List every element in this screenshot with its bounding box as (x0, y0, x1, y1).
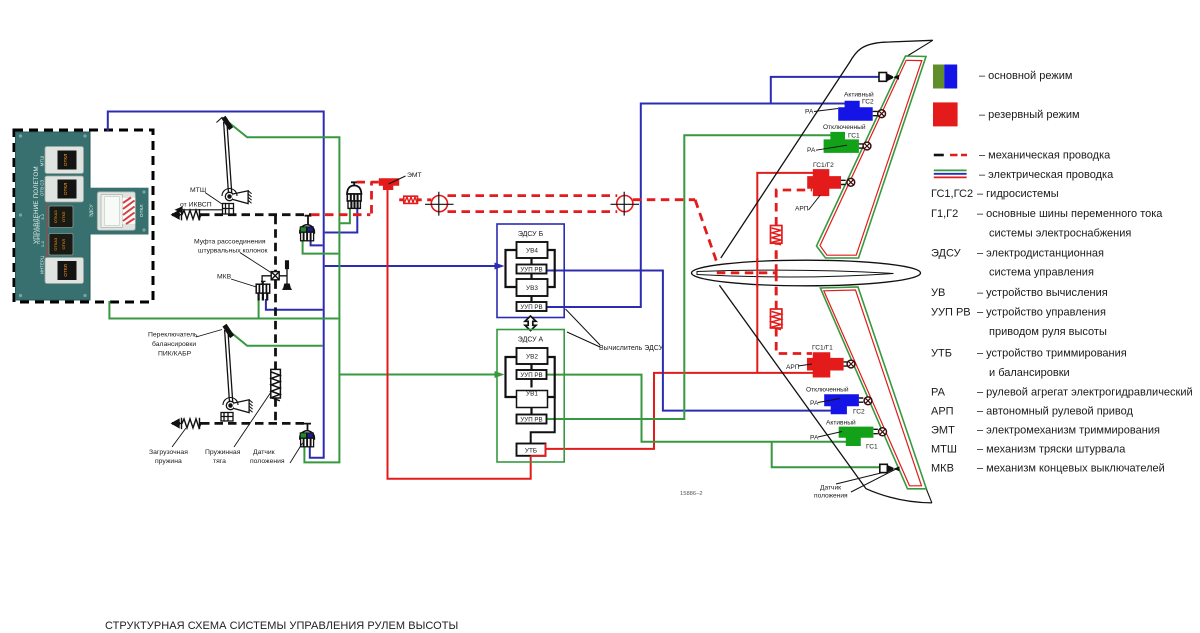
svg-text:системы электроснабжения: системы электроснабжения (989, 228, 1131, 240)
svg-text:– механическая проводка: – механическая проводка (979, 150, 1111, 162)
wire red EMT to UTB bottom (388, 190, 531, 479)
GROUP: overlay mech lines over fuselage (717, 252, 776, 296)
GROUP: wires (108, 77, 880, 479)
EMT trim electromechanism (379, 178, 399, 190)
svg-text:ЭДСУ А: ЭДСУ А (518, 337, 544, 344)
svg-text:положения: положения (814, 493, 848, 500)
clutch release lever (282, 261, 292, 289)
EDSU A outer box (497, 330, 564, 463)
loading spring copilot (172, 418, 203, 429)
mech black dashed vertical interconnect columns (274, 216, 277, 423)
cable quadrant pulley left (425, 192, 454, 216)
cable tension spring red (404, 196, 418, 203)
red wire crossing fuselage (756, 258, 758, 287)
svg-text:МКВ: МКВ (931, 463, 954, 475)
upper hinge circle red row (841, 178, 855, 186)
control column copilot (221, 324, 253, 421)
block UV3 (517, 279, 548, 296)
GROUP: edsu computers (495, 224, 664, 462)
svg-text:– резервный режим: – резервный режим (979, 109, 1080, 121)
wire green branch to lower position sensor (772, 442, 880, 467)
svg-text:УТБ: УТБ (525, 448, 537, 455)
svg-text:Активный: Активный (826, 419, 856, 427)
svg-text:УВ4: УВ4 (526, 248, 538, 255)
switch module ИНТЕРЦ (40, 255, 84, 283)
lower ARP actuator red cross (807, 352, 844, 377)
wire red UTB to lower ARP (547, 373, 814, 449)
svg-text:Вычислитель ЭДСУ: Вычислитель ЭДСУ (599, 345, 664, 352)
svg-text:УВ: УВ (931, 287, 945, 299)
wire green bus G1 column1 to EDSU A and lower sensor (226, 121, 339, 463)
svg-text:– устройство триммирования: – устройство триммирования (977, 348, 1127, 360)
wire blue branch B1 to EDSU B input arrow (325, 265, 495, 267)
switch module ОТВ СЗ (40, 176, 84, 202)
svg-text:ТОРМ ИНТЕРЦ: ТОРМ ИНТЕРЦ (36, 215, 41, 244)
GROUP: diagram small labels (148, 172, 703, 497)
panel УПРАВЛЕНИЕ ПОЛЕТОМ faceplate (16, 132, 91, 300)
block UUP RV (A1) (517, 370, 547, 379)
lower hinge circle red row (844, 360, 855, 368)
lower RA GS2 actuator blue (824, 394, 859, 414)
switch module ТОРМ ИНТЕРЦ 1-4 (36, 205, 73, 256)
svg-text:Отключенный: Отключенный (806, 386, 849, 394)
mech red dashed vertical through fuselage (775, 252, 778, 296)
svg-text:УВ2: УВ2 (526, 354, 538, 361)
svg-text:ПИК/КАБР: ПИК/КАБР (158, 351, 192, 358)
block UUP RV (A2) (517, 415, 547, 424)
wire green EDSU A UUP RV2 output to upper RA GS1 (548, 135, 832, 419)
lower hinge circle blue row (864, 397, 872, 405)
legend swatch reserve mode red (933, 102, 958, 126)
svg-text:РА: РА (810, 400, 819, 407)
svg-text:УТБ: УТБ (931, 348, 952, 360)
svg-text:ОТКЛ: ОТКЛ (139, 204, 145, 217)
svg-text:ГС1,ГС2: ГС1,ГС2 (931, 188, 973, 200)
svg-text:РА: РА (807, 147, 816, 154)
GROUP: cockpit panel (14, 130, 153, 302)
upper RA GS1 hinge link (859, 144, 863, 148)
block UUP RV (B1) (517, 265, 547, 274)
svg-text:– основные шины переменного т: – основные шины переменного тока (977, 208, 1163, 220)
switch module ТОРМ ИНТЕРЦ 3-2 (40, 206, 73, 228)
svg-text:– основной режим: – основной режим (979, 70, 1072, 82)
side switch ЭДСУ guarded (89, 192, 146, 231)
mech black dashed run copilot side (201, 422, 308, 425)
fuselage inner profile (697, 270, 894, 277)
svg-text:УУП РВ: УУП РВ (520, 372, 542, 379)
svg-text:ГС2: ГС2 (862, 99, 874, 106)
svg-text:Отключенный: Отключенный (823, 123, 866, 131)
svg-text:МТШ: МТШ (40, 156, 45, 166)
svg-text:– рулевой агрегат электрогидр: – рулевой агрегат электрогидравлический (977, 386, 1193, 398)
block UTB (517, 444, 546, 456)
svg-text:МТШ: МТШ (931, 444, 957, 456)
svg-text:ОТКЛ: ОТКЛ (63, 264, 68, 276)
svg-text:– электродистанционная: – электродистанционная (977, 247, 1104, 259)
panel dashed boundary box (14, 130, 153, 302)
control column pilot (217, 116, 252, 204)
svg-text:ГС1: ГС1 (848, 132, 860, 139)
svg-text:– гидросистемы: – гидросистемы (977, 188, 1059, 200)
wire blue branch column1 sensor to B1 (311, 240, 323, 245)
link UUP RV2 to UTB (531, 397, 555, 443)
svg-text:РА: РА (810, 435, 819, 442)
upper ARP actuator red cross (807, 169, 841, 196)
green input arrowhead (495, 371, 505, 378)
GROUP: title (105, 620, 458, 632)
upper RA GS1 actuator green (824, 132, 859, 153)
svg-text:ЭМТ: ЭМТ (931, 424, 955, 436)
svg-text:15886–2: 15886–2 (680, 491, 703, 497)
lower stab leading edge (719, 285, 932, 503)
position sensor near column1 (300, 216, 315, 241)
upper tip to elevator (907, 40, 933, 56)
legend electrical wiring symbol (934, 169, 967, 171)
upper stab leading edge (721, 40, 933, 258)
lower blue hinge link (859, 398, 863, 402)
wire blue branch to upper position sensor (771, 77, 879, 104)
MKV limit switch unit (256, 281, 270, 301)
lower elevator band green (820, 287, 926, 489)
blue input arrowhead (495, 263, 505, 270)
lower position sensor box (880, 464, 900, 472)
EDSU B outer box (497, 224, 564, 318)
EDSU A internal bus left (506, 357, 517, 397)
GROUP: mechanical linkage (172, 116, 812, 447)
svg-text:ОТКАЗ: ОТКАЗ (53, 210, 58, 224)
svg-text:ГС1/Г1: ГС1/Г1 (812, 345, 833, 352)
svg-text:ОТКЛ: ОТКЛ (63, 154, 68, 166)
svg-text:УУП РВ: УУП РВ (520, 267, 542, 274)
svg-text:РА: РА (931, 386, 946, 398)
svg-text:АРП: АРП (795, 206, 809, 213)
wire green branch column1 sensor to G1 (303, 240, 339, 254)
upper hinge circle blue row (878, 110, 886, 118)
GROUP: legend (931, 65, 1193, 475)
svg-text:– электрическая проводка: – электрическая проводка (979, 169, 1114, 181)
lower green hinge link (874, 429, 878, 433)
legend mechanical wiring symbol (934, 154, 944, 157)
block UUP RV (B2) (517, 302, 547, 311)
lower hinge circle green row (879, 428, 887, 436)
position sensor near column2 (300, 423, 315, 446)
trim spring lower red (771, 309, 782, 330)
svg-text:Активный: Активный (844, 91, 874, 99)
svg-text:ГС2: ГС2 (853, 409, 865, 416)
mech red dashed across fuselage (717, 271, 776, 274)
upper elevator band red inner (820, 60, 922, 255)
wire blue EDSU B UUP RV1 output to lower RA GS2 (546, 271, 832, 411)
svg-text:РА: РА (805, 109, 814, 116)
svg-text:ЭДСУ Б: ЭДСУ Б (518, 231, 544, 238)
lower elevator band red inner (824, 290, 922, 486)
svg-text:ЭДСУ: ЭДСУ (931, 247, 962, 259)
tail actuator labels (786, 91, 878, 500)
wire blue EDSU B UUP RV2 output to upper RA GS2 (546, 104, 845, 308)
svg-text:АРП: АРП (931, 405, 954, 417)
svg-text:Датчик: Датчик (253, 449, 275, 456)
EDSU A interconnects (530, 364, 532, 415)
fuselage ellipse (692, 260, 921, 286)
svg-text:система управления: система управления (989, 267, 1094, 279)
svg-text:УУП РВ: УУП РВ (520, 417, 542, 424)
upper RA GS2 hinge link (873, 111, 878, 115)
legend swatch main mode green part (933, 65, 944, 89)
position sensor near EMT (347, 182, 361, 208)
lower tip line (926, 489, 932, 503)
upper elevator band green (817, 56, 927, 258)
svg-text:штурвальных колонок: штурвальных колонок (198, 248, 268, 255)
legend swatch main mode blue part (944, 65, 957, 89)
wire green branch G1 to EDSU A input arrow (339, 374, 495, 376)
svg-text:ОТКЛ: ОТКЛ (61, 239, 66, 250)
svg-text:МКВ: МКВ (217, 274, 232, 281)
panel screws (19, 134, 146, 297)
wire green branch EMT sensor to G1 (340, 208, 350, 223)
svg-text:ОТКЛ: ОТКЛ (63, 183, 68, 195)
switch module МТШ (40, 147, 84, 174)
wire blue branch MKV to B1 (266, 299, 323, 310)
svg-text:Муфта рассоединения: Муфта рассоединения (194, 239, 266, 246)
trim spring upper red (771, 226, 782, 245)
svg-text:положения: положения (250, 458, 285, 465)
GROUP: tail (692, 40, 933, 503)
MTSH shaker unit (223, 204, 234, 215)
svg-text:от ИКВСП: от ИКВСП (180, 202, 212, 209)
svg-text:Пружинная: Пружинная (205, 449, 241, 456)
svg-text:и балансировки: и балансировки (989, 367, 1070, 379)
svg-text:УВ3: УВ3 (526, 285, 538, 292)
svg-text:приводом руля высоты: приводом руля высоты (989, 326, 1107, 338)
svg-text:– устройство управления: – устройство управления (977, 306, 1106, 318)
clutch side links (262, 276, 287, 284)
svg-text:балансировки: балансировки (152, 340, 196, 348)
svg-text:УВ1: УВ1 (526, 390, 538, 397)
svg-text:– механизм концевых выключате: – механизм концевых выключателей (977, 463, 1165, 475)
wire blue bus B1 panel to lower position sensor (108, 112, 324, 458)
svg-text:УУП РВ: УУП РВ (931, 306, 971, 318)
block UV4 (517, 242, 548, 258)
svg-text:МТШ: МТШ (190, 187, 206, 194)
upper position sensor box (879, 73, 899, 82)
wire red branch to upper ARP (757, 173, 813, 373)
EDSU B internal bus right (548, 250, 555, 287)
svg-text:УУП РВ: УУП РВ (520, 304, 542, 311)
datchik pointer lines lower (836, 468, 899, 493)
cable quadrant pulley right (611, 192, 640, 216)
block UV1 (517, 391, 548, 408)
svg-text:ЭДСУ: ЭДСУ (89, 203, 95, 217)
svg-text:Датчик: Датчик (820, 485, 841, 492)
cross-link double arrow between EDSU A and B (525, 316, 536, 331)
svg-text:ОТКАЗ: ОТКАЗ (53, 237, 58, 251)
svg-text:Переключатель: Переключатель (148, 332, 198, 339)
EDSU A internal bus right (548, 357, 555, 397)
spring rod (Pruzhinnaya tyaga) (271, 369, 281, 400)
svg-text:АРП: АРП (786, 364, 800, 371)
upper RA GS2 actuator blue (838, 101, 873, 121)
mech black dashed run pilot side (201, 213, 311, 216)
EDSU B internal bus left (506, 250, 517, 287)
svg-text:– устройство вычисления: – устройство вычисления (977, 287, 1108, 299)
block UV2 (517, 348, 548, 364)
wire green branch panel bottom to G1 (109, 301, 338, 319)
svg-text:ГС1/Г2: ГС1/Г2 (813, 162, 834, 169)
clutch (mufta) box (271, 272, 279, 280)
svg-text:ГС1: ГС1 (866, 444, 878, 451)
wire green EDSU A UUP RV1 output to lower RA GS1 (548, 375, 847, 442)
upper hinge circle green row (863, 142, 871, 150)
svg-text:тяга: тяга (213, 458, 226, 465)
svg-text:СТРУКТУРНАЯ СХЕМА СИСТЕМЫ УПРА: СТРУКТУРНАЯ СХЕМА СИСТЕМЫ УПРАВЛЕНИЯ РУЛ… (105, 620, 458, 632)
svg-text:– автономный рулевой привод: – автономный рулевой привод (977, 405, 1134, 417)
ot IKVSP input link (176, 206, 223, 212)
svg-text:пружина: пружина (155, 458, 182, 465)
svg-text:ЭМТ: ЭМТ (407, 172, 422, 179)
mech red dashed pilot run to EMT (311, 182, 812, 353)
wire green branch MKV to panel green (258, 299, 260, 318)
svg-text:ОТКЛ: ОТКЛ (61, 211, 66, 222)
svg-text:Загрузочная: Загрузочная (149, 449, 188, 456)
svg-text:Г1,Г2: Г1,Г2 (931, 208, 958, 220)
vychislitel EDSU pointer lines (566, 309, 601, 347)
EDSU B interconnects (530, 258, 532, 302)
loading spring pilot (172, 209, 203, 220)
panel side faceplate ЭДСУ (87, 188, 149, 235)
svg-text:– механизм тряски штурвала: – механизм тряски штурвала (977, 444, 1126, 456)
wire blue branch EMT sensor to B1 (325, 208, 358, 232)
svg-text:ОТВ СЗ: ОТВ СЗ (40, 180, 45, 196)
svg-text:– электромеханизм триммирован: – электромеханизм триммирования (977, 424, 1160, 436)
lower RA GS1 actuator green (839, 427, 874, 446)
svg-text:ИНТЕРЦ: ИНТЕРЦ (40, 255, 45, 274)
wire green branch column2 to blue bus (227, 329, 323, 346)
